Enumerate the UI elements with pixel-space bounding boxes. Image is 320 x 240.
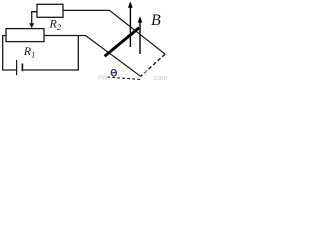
wire R1 right lead <box>44 35 86 37</box>
slider arrowhead onto R1 <box>29 23 34 28</box>
svg-text:B: B <box>151 12 161 29</box>
svg-text:R1: R1 <box>23 44 36 59</box>
wire R2 left lead <box>32 12 37 25</box>
wire top from R2 <box>63 9 110 11</box>
B field arrow <box>139 22 141 55</box>
battery short plate <box>21 64 23 72</box>
battery long plate <box>16 60 18 75</box>
svg-text:E: E <box>144 71 149 78</box>
tall vertical arrow <box>129 7 131 47</box>
svg-text:ms: ms <box>98 75 108 82</box>
rail upper: bend down the incline to right vertex <box>110 10 166 54</box>
resistor R2 <box>37 4 63 17</box>
svg-text:R2: R2 <box>49 17 62 32</box>
wire R1 left lead down to bottom <box>3 36 16 71</box>
dashed incline right edge <box>141 54 165 76</box>
label theta <box>111 69 117 76</box>
resistor R1 (rheostat) <box>6 29 44 42</box>
rail lower: incline left edge <box>86 36 141 77</box>
conducting rod on rails <box>105 28 140 57</box>
dashed horizontal base line <box>108 77 141 79</box>
wire bottom to right riser <box>23 36 78 71</box>
svg-text:.com: .com <box>152 75 167 81</box>
